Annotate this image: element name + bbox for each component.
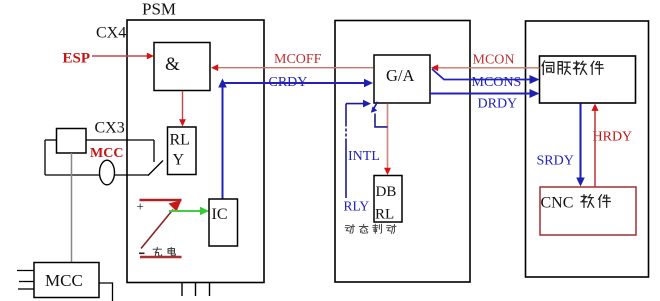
svg-text:Y: Y — [173, 152, 185, 169]
svg-text:MCOFF: MCOFF — [274, 52, 322, 67]
svg-text:RL: RL — [170, 132, 190, 149]
coil MCC ellipse — [100, 160, 115, 185]
wire CX3 left — [44, 140, 46, 175]
wire ESP input — [92, 55, 150, 57]
wire gate to relay RLY — [182, 91, 184, 122]
box CNC module (right) — [526, 21, 649, 277]
wire RLY contact to INTL line — [375, 114, 388, 127]
label 动态制动 (dynamic braking) — [345, 224, 396, 233]
gate U1 "&" — [154, 43, 210, 91]
wire INTL feedback vertical dashed — [345, 104, 347, 127]
contact blade (switch) — [148, 161, 163, 176]
label 伺服软件 (servo software) — [542, 61, 603, 75]
label 充电 (charging) — [153, 247, 175, 256]
svg-text:MCC: MCC — [45, 271, 83, 290]
wire MCOFF — [216, 67, 373, 69]
wire INTL (red, G/A to DB relay) — [387, 104, 389, 171]
svg-text:PSM: PSM — [142, 0, 176, 19]
connector CX3 box — [57, 129, 87, 154]
wire CRDY vertical from IC — [222, 83, 224, 199]
charge arrow diagonal — [141, 210, 173, 249]
MCC terminals left — [17, 270, 34, 272]
svg-text:RL: RL — [375, 207, 394, 223]
wire MCON — [436, 67, 540, 69]
wire CX3 top — [45, 139, 57, 141]
charge underline — [140, 256, 182, 259]
svg-text:+: + — [137, 199, 144, 214]
svg-text:CNC: CNC — [541, 195, 574, 212]
svg-text:CX4: CX4 — [96, 25, 126, 42]
PSM bottom terminal stubs — [181, 283, 183, 297]
box servo software — [540, 56, 636, 103]
wire INTL feedback horizontal (blue) — [346, 103, 367, 105]
capacitor charge symbol: plate + — [140, 199, 182, 202]
wire MCC right — [99, 283, 113, 301]
box PSM module — [127, 20, 264, 283]
wire IC enable (green) — [169, 210, 204, 212]
wire SRDY — [579, 104, 581, 182]
svg-text:DB: DB — [376, 184, 397, 200]
label minus — [139, 252, 145, 254]
svg-text:&: & — [165, 54, 180, 75]
svg-text:SRDY: SRDY — [537, 154, 574, 169]
contact stub — [153, 140, 155, 162]
contact RLY blade (blue) — [373, 102, 378, 110]
svg-text:MCON: MCON — [473, 53, 515, 68]
svg-text:DRDY: DRDY — [478, 97, 518, 112]
IC box — [209, 199, 238, 246]
svg-text:RLY: RLY — [344, 199, 370, 214]
wire CRDY horizontal to G/A — [223, 82, 369, 84]
svg-text:INTL: INTL — [348, 149, 380, 164]
wire MCONS — [432, 69, 534, 80]
box CNC software (red) — [540, 187, 636, 235]
junction arrow up on CRDY — [218, 79, 227, 88]
wire CX3 to MCC (gray) — [71, 153, 73, 262]
box control module (middle) — [335, 21, 470, 283]
svg-text:MCC: MCC — [90, 146, 123, 161]
gate U2 G/A — [374, 55, 430, 103]
svg-text:G/A: G/A — [386, 66, 415, 85]
wire CX3 bottom — [45, 174, 149, 176]
svg-text:IC: IC — [212, 206, 228, 223]
svg-text:HRDY: HRDY — [593, 130, 633, 145]
relay RLY box — [168, 127, 197, 175]
svg-text:MCONS: MCONS — [472, 75, 522, 90]
box MCC contactor — [34, 263, 99, 298]
wire HRDY — [594, 109, 596, 188]
wire DRDY — [430, 92, 534, 94]
svg-text:ESP: ESP — [63, 51, 91, 67]
svg-text:CX3: CX3 — [95, 120, 125, 137]
relay DB/RL box — [374, 176, 402, 223]
